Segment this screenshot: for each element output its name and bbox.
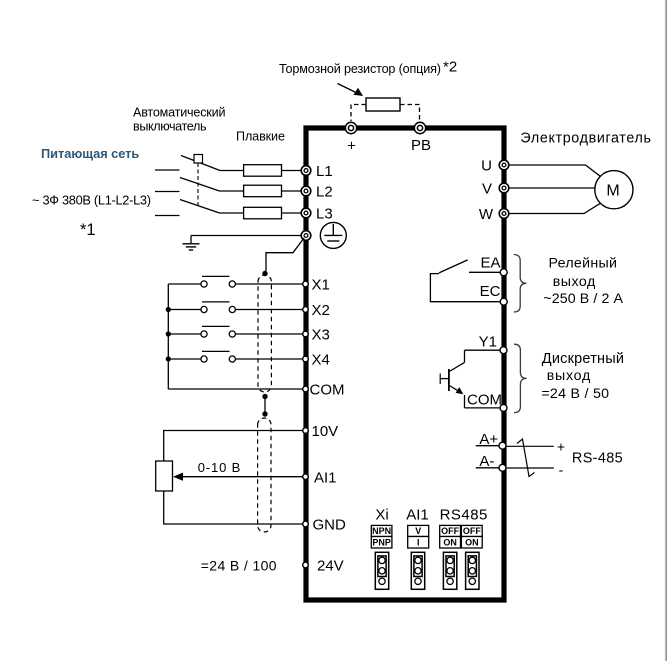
svg-text:+: + bbox=[557, 439, 565, 455]
svg-text:RS485: RS485 bbox=[440, 507, 488, 524]
wire V to motor bbox=[509, 187, 595, 189]
breaker QF1 blade 3 bbox=[180, 200, 220, 214]
svg-text:Xi: Xi bbox=[375, 507, 388, 524]
terminal COM bbox=[303, 382, 345, 399]
cable shield 1 (dashed) bbox=[258, 275, 271, 392]
terminal X4 bbox=[303, 352, 330, 369]
svg-text:V: V bbox=[482, 181, 492, 198]
wire shield1 to shield2 bbox=[264, 397, 266, 415]
svg-text:EC: EC bbox=[480, 283, 501, 300]
node shield1 bottom bbox=[262, 394, 267, 399]
svg-text:Релейный: Релейный bbox=[548, 256, 617, 272]
switch S3 (X3) bbox=[168, 326, 302, 337]
svg-text:L2: L2 bbox=[316, 184, 333, 201]
wire W to motor bbox=[509, 203, 600, 213]
svg-text:+: + bbox=[347, 138, 356, 155]
terminal EC bbox=[480, 283, 508, 305]
svg-text:выключатель: выключатель bbox=[133, 120, 207, 134]
selector box AI1 (V/I) bbox=[408, 525, 429, 548]
svg-text:COM: COM bbox=[467, 392, 502, 409]
svg-text:X4: X4 bbox=[312, 352, 330, 369]
svg-text:X2: X2 bbox=[312, 302, 330, 319]
wire PE to shield bbox=[266, 238, 304, 271]
svg-text:~ 3Ф 380В (L1-L2-L3): ~ 3Ф 380В (L1-L2-L3) bbox=[32, 193, 151, 208]
svg-text:Питающая сеть: Питающая сеть bbox=[41, 146, 139, 161]
svg-text:=24 В / 50: =24 В / 50 bbox=[541, 386, 609, 402]
jumper J4 (RS485 b) bbox=[466, 552, 479, 589]
VFD main box U1 bbox=[306, 128, 504, 600]
breaker QF1 pole 3 input wire bbox=[155, 215, 180, 217]
svg-text:Тормозной резистор (опция): Тормозной резистор (опция) bbox=[279, 62, 441, 76]
node shield1 top bbox=[262, 271, 267, 276]
wire A+ inside bbox=[476, 445, 499, 447]
terminal 10V bbox=[303, 423, 339, 440]
terminal L2 bbox=[301, 184, 332, 201]
wire RS485 - bbox=[506, 467, 553, 469]
terminal PE bbox=[301, 231, 311, 241]
terminal U bbox=[481, 158, 509, 175]
svg-text:X3: X3 bbox=[312, 327, 330, 344]
ground (mains earth) bbox=[183, 236, 200, 251]
wire AI1 with arrow bbox=[173, 473, 303, 481]
svg-text:=24 В / 100: =24 В / 100 bbox=[201, 558, 277, 574]
jumper J1 (Xi) bbox=[375, 552, 388, 589]
wire U to motor bbox=[509, 165, 600, 176]
wire 10V bbox=[164, 431, 303, 462]
svg-text:AI1: AI1 bbox=[406, 507, 429, 524]
terminal L3 bbox=[301, 206, 332, 223]
svg-text:A+: A+ bbox=[479, 431, 498, 448]
potentiometer RP1 bbox=[156, 461, 173, 491]
wire dashed left of R1 bbox=[351, 105, 366, 122]
wire blade3 to fuse3 bbox=[220, 212, 244, 214]
wire RS485 + bbox=[506, 445, 553, 447]
svg-text:W: W bbox=[479, 206, 494, 223]
twisted pair symbol bbox=[517, 439, 535, 477]
terminal + bbox=[345, 122, 356, 154]
svg-text:A-: A- bbox=[479, 453, 494, 470]
svg-text:выход: выход bbox=[553, 274, 596, 290]
fuse F3 bbox=[244, 207, 282, 219]
breaker QF1 linkage square bbox=[194, 155, 203, 164]
terminal AI1 bbox=[303, 469, 337, 486]
svg-text:0-10 В: 0-10 В bbox=[198, 460, 241, 475]
switch S1 (X1) bbox=[168, 276, 302, 287]
wire blade1 to fuse1 bbox=[220, 170, 244, 172]
resistor R1 (brake) bbox=[366, 98, 400, 111]
svg-text:U: U bbox=[481, 158, 492, 175]
wire ground to PE terminal bbox=[191, 235, 301, 237]
svg-text:X1: X1 bbox=[312, 277, 330, 294]
svg-text:Плавкие: Плавкие bbox=[236, 130, 285, 144]
wire A- inside bbox=[476, 467, 499, 469]
terminal EA bbox=[480, 255, 507, 276]
terminal 24V bbox=[303, 558, 344, 575]
terminal X2 bbox=[303, 302, 330, 319]
wire fuse2 to L2 bbox=[282, 190, 302, 192]
transistor Q1 (open collector Y1) bbox=[440, 350, 500, 408]
svg-text:10V: 10V bbox=[312, 423, 339, 440]
svg-text:ON: ON bbox=[443, 538, 457, 548]
terminal W bbox=[479, 206, 509, 223]
svg-text:Электродвигатель: Электродвигатель bbox=[520, 130, 651, 146]
cable shield 2 (dashed) bbox=[258, 418, 271, 532]
arrow to brake resistor bbox=[338, 84, 364, 97]
breaker QF1 pole 2 input wire bbox=[155, 191, 180, 193]
node shield2 top bbox=[262, 411, 267, 416]
switch S2 (X2) bbox=[168, 302, 302, 313]
selector box RS485 a (OFF/ON) bbox=[440, 525, 461, 548]
protective earth symbol bbox=[320, 222, 346, 248]
jumper J2 (AI1) bbox=[411, 552, 424, 589]
svg-text:NPN: NPN bbox=[372, 526, 391, 536]
terminal A- bbox=[479, 453, 506, 471]
svg-text:*2: *2 bbox=[443, 59, 457, 76]
relay contact K1 bbox=[430, 260, 499, 302]
svg-text:EA: EA bbox=[480, 255, 500, 272]
svg-text:*1: *1 bbox=[80, 221, 96, 239]
svg-text:Y1: Y1 bbox=[479, 333, 497, 350]
breaker QF1 pole 1 input wire bbox=[155, 169, 180, 171]
svg-text:-: - bbox=[559, 462, 564, 478]
breaker QF1 blade 1 bbox=[181, 156, 220, 171]
terminal GND bbox=[303, 517, 346, 534]
jumper J3 (RS485 a) bbox=[443, 552, 456, 589]
wire COM bbox=[168, 388, 302, 390]
junction dot X2 bus bbox=[166, 307, 171, 312]
terminal PB bbox=[411, 122, 431, 154]
terminal A+ bbox=[479, 431, 506, 449]
switch S4 (X4) bbox=[168, 351, 302, 362]
svg-text:M: M bbox=[606, 183, 619, 200]
terminal X1 bbox=[303, 277, 330, 294]
wire pot to GND bbox=[164, 491, 303, 524]
terminal COM (output) bbox=[467, 392, 507, 412]
wire dashed right of R1 bbox=[400, 105, 420, 122]
terminal Y1 bbox=[479, 333, 507, 353]
selector box RS485 b (OFF/ON) bbox=[461, 525, 482, 548]
wire fuse3 to L3 bbox=[282, 212, 302, 214]
svg-text:ON: ON bbox=[465, 538, 479, 548]
brace relay output bbox=[514, 255, 527, 313]
breaker QF1 linkage dashed bbox=[197, 163, 199, 208]
svg-text:RS-485: RS-485 bbox=[572, 451, 623, 467]
terminal X3 bbox=[303, 327, 330, 344]
svg-text:I: I bbox=[417, 538, 420, 548]
svg-text:L3: L3 bbox=[316, 206, 333, 223]
window edge line (right) bbox=[665, 0, 666, 661]
svg-text:PNP: PNP bbox=[372, 538, 391, 548]
svg-text:OFF: OFF bbox=[441, 526, 459, 536]
wire blade2 to fuse2 bbox=[220, 190, 244, 192]
digital input bus wire bbox=[167, 284, 169, 389]
svg-text:Автоматический: Автоматический bbox=[133, 106, 226, 120]
svg-text:PB: PB bbox=[411, 137, 431, 154]
svg-text:V: V bbox=[415, 526, 421, 536]
motor M1 bbox=[595, 171, 633, 209]
junction dot X3 bus bbox=[166, 331, 171, 336]
svg-text:Дискретный: Дискретный bbox=[542, 351, 624, 367]
junction dot X4 bus bbox=[166, 356, 171, 361]
svg-text:OFF: OFF bbox=[463, 526, 481, 536]
terminal L1 bbox=[301, 163, 332, 180]
svg-text:L1: L1 bbox=[316, 163, 333, 180]
svg-text:AI1: AI1 bbox=[314, 469, 337, 486]
svg-text:24V: 24V bbox=[317, 558, 344, 575]
svg-text:~250 В / 2 А: ~250 В / 2 А bbox=[543, 291, 623, 307]
breaker QF1 blade 2 bbox=[180, 178, 220, 192]
svg-text:GND: GND bbox=[313, 517, 347, 534]
terminal V bbox=[482, 181, 509, 198]
fuse F1 bbox=[244, 165, 282, 177]
svg-text:выход: выход bbox=[547, 368, 591, 384]
selector box Xi (NPN/PNP) bbox=[371, 525, 392, 548]
fuse F2 bbox=[244, 185, 282, 197]
svg-text:COM: COM bbox=[310, 382, 345, 399]
brace discrete output bbox=[514, 344, 527, 412]
wire fuse1 to L1 bbox=[282, 170, 302, 172]
